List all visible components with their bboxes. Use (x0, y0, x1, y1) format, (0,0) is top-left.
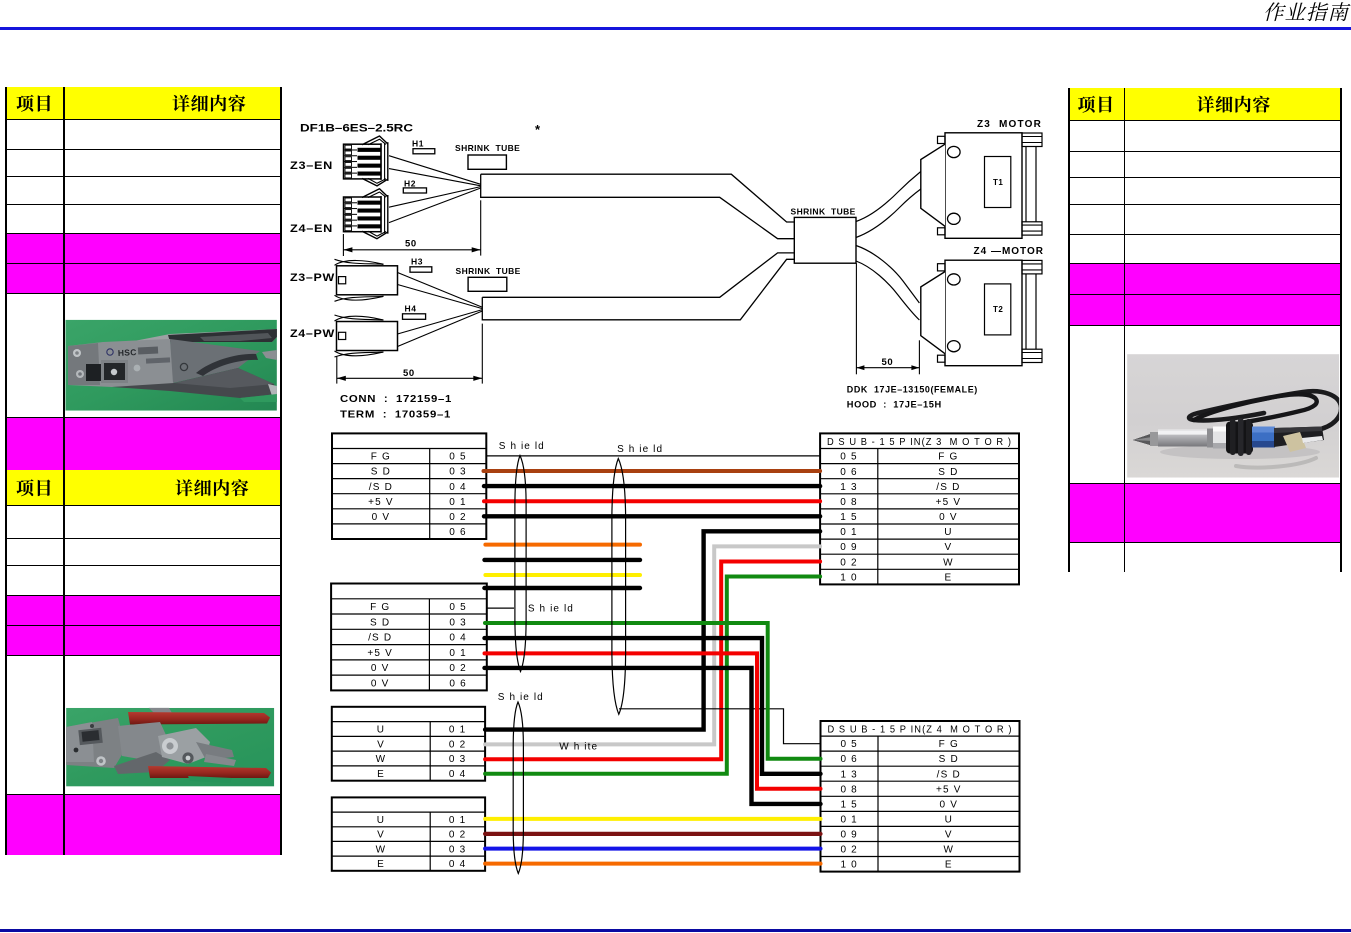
bottom blue rule (0, 929, 1351, 932)
svg-text:0 5: 0 5 (449, 602, 467, 613)
svg-text:*: * (535, 122, 541, 137)
short FG stub table2 (487, 607, 514, 609)
svg-text:/S D: /S D (937, 769, 961, 780)
svg-text:0 2: 0 2 (449, 663, 467, 674)
wire Z4-EN to cable (389, 187, 481, 208)
item table C (right) (1068, 88, 1342, 571)
svg-text:0 8: 0 8 (840, 497, 858, 508)
svg-text:F G: F G (371, 452, 391, 463)
svg-text:0 3: 0 3 (449, 467, 467, 478)
pin table 2 Z4-EN wires (331, 584, 487, 691)
wire V darkred table4 to Z4 pin09 (485, 832, 820, 836)
connector Z4-PW (337, 322, 398, 351)
svg-text:1 5: 1 5 (840, 799, 858, 810)
svg-text:W h ite: W h ite (559, 742, 598, 753)
wire V white table3 to Z3 pin09 (485, 546, 820, 744)
svg-text:+5 V: +5 V (368, 497, 394, 508)
svg-text:0 3: 0 3 (449, 844, 467, 855)
svg-text:0 2: 0 2 (449, 512, 467, 523)
svg-text:Z3 MOTOR: Z3 MOTOR (977, 119, 1042, 130)
svg-text:SHRINK TUBE: SHRINK TUBE (456, 266, 521, 276)
stub wire black 1 (485, 558, 641, 562)
svg-text:W: W (376, 754, 387, 765)
central shrink tube box (794, 217, 856, 263)
svg-text:0 1: 0 1 (449, 815, 467, 826)
svg-text:U: U (945, 815, 953, 826)
wire W red table3 to Z3 pin02 (485, 562, 820, 760)
svg-text:S D: S D (370, 617, 390, 628)
svg-text:0 6: 0 6 (449, 678, 467, 689)
wire SD brown table1 to Z3 pin06 (484, 469, 821, 473)
pin table 3 Z3-PW wires (332, 707, 485, 781)
cable 1 outline (481, 174, 795, 222)
header A 项目/详细内容 (17, 95, 34, 112)
svg-text:0 2: 0 2 (840, 845, 858, 856)
top blue rule (0, 27, 1351, 30)
svg-text:0 V: 0 V (371, 663, 390, 674)
cable 2 outline (482, 253, 794, 297)
connector Z3-EN (344, 144, 382, 179)
pin table 4 Z4-PW wires (332, 797, 485, 870)
svg-text:50: 50 (403, 368, 415, 379)
photo soldering iron (1127, 354, 1341, 478)
svg-text:0 V: 0 V (372, 512, 391, 523)
photo crimp tool 1 (66, 320, 278, 411)
wire shield2 to Z4 pin05 (thin) (619, 709, 821, 744)
svg-text:0 6: 0 6 (840, 754, 858, 765)
wire /SD black table2 to Z4 pin13 (485, 638, 821, 774)
svg-text:1 0: 1 0 (840, 572, 858, 583)
dimension 50 motor (855, 263, 857, 374)
pin table 1 Z3-EN wires (332, 433, 486, 539)
connector Z3 MOTOR (945, 133, 1022, 239)
svg-text:Z4 —MOTOR: Z4 —MOTOR (974, 246, 1044, 257)
svg-text:V: V (377, 830, 385, 841)
svg-text:1 0: 1 0 (840, 860, 858, 871)
shrink tube 2 (468, 277, 507, 291)
svg-text:H2: H2 (404, 178, 416, 188)
svg-text:SHRINK TUBE: SHRINK TUBE (791, 207, 856, 217)
svg-text:E: E (944, 572, 952, 583)
svg-text:S h ie ld: S h ie ld (499, 441, 545, 452)
wire Z3-EN to cable (389, 156, 481, 185)
photo crimp tool 2 (66, 703, 274, 786)
svg-text:W: W (943, 845, 954, 856)
svg-text:W: W (943, 557, 954, 568)
svg-text:0 2: 0 2 (840, 557, 858, 568)
wire 0V black table1 to Z3 pin15 (484, 514, 820, 518)
svg-text:Z3–PW: Z3–PW (290, 272, 335, 284)
stub wire black 2 (484, 586, 640, 590)
svg-text:HOOD : 17JE–15H: HOOD : 17JE–15H (847, 400, 942, 411)
wire E green table3 to Z3 pin10 (485, 577, 820, 774)
wire W blue table4 to Z4 pin02 (485, 847, 820, 851)
svg-text:V: V (945, 830, 953, 841)
svg-text:+5 V: +5 V (936, 497, 962, 508)
wire to Z4 motor b (856, 261, 919, 320)
svg-text:0 V: 0 V (939, 799, 958, 810)
svg-text:U: U (944, 527, 952, 538)
wire E orange table4 to Z4 pin10 (485, 862, 820, 866)
wire to Z3 motor b (856, 189, 921, 238)
svg-text:/S D: /S D (368, 633, 392, 644)
svg-text:D S U B - 1 5 P IN(Z 3 M O T: D S U B - 1 5 P IN(Z 3 M O T O R ) (827, 436, 1012, 448)
svg-text:S D: S D (939, 754, 959, 765)
svg-text:D S U B - 1 5 P IN(Z 4 M O T: D S U B - 1 5 P IN(Z 4 M O T O R ) (828, 723, 1013, 735)
svg-text:W: W (376, 844, 387, 855)
svg-text:E: E (377, 769, 385, 780)
svg-text:HSC: HSC (118, 347, 137, 358)
wire +5V red table2 to Z4 pin08 (485, 653, 821, 788)
svg-text:0 3: 0 3 (449, 754, 467, 765)
svg-text:F G: F G (938, 452, 958, 463)
svg-text:U: U (377, 725, 385, 736)
svg-text:0 5: 0 5 (840, 452, 858, 463)
svg-text:DF1B–6ES–2.5RC: DF1B–6ES–2.5RC (300, 123, 413, 135)
svg-text:/S D: /S D (936, 482, 960, 493)
svg-text:Z4–EN: Z4–EN (290, 223, 333, 235)
svg-text:T1: T1 (993, 178, 1003, 187)
svg-text:TERM : 170359–1: TERM : 170359–1 (340, 410, 451, 421)
svg-text:0 1: 0 1 (840, 815, 858, 826)
svg-text:H1: H1 (412, 139, 424, 149)
svg-text:0 8: 0 8 (840, 784, 858, 795)
dimension 50 PW (336, 357, 338, 384)
DSUB-15PIN Z3 MOTOR table (820, 433, 1019, 584)
svg-text:+5 V: +5 V (936, 784, 962, 795)
dimension 50 EN (342, 234, 344, 256)
header B 项目/详细内容 (17, 479, 34, 496)
svg-text:0 6: 0 6 (449, 527, 467, 538)
svg-text:0 4: 0 4 (449, 769, 467, 780)
item table A (top-left) (5, 87, 282, 470)
svg-text:0 6: 0 6 (840, 467, 858, 478)
wire +5V red table1 to Z3 pin08 (484, 499, 820, 503)
wire U black table3 to Z3 pin01 (485, 531, 820, 729)
connector Z3-PW (337, 266, 398, 295)
svg-text:E: E (945, 860, 953, 871)
wire Z4-PW to cable (398, 310, 483, 334)
shield ellipse 1 (515, 456, 526, 672)
stub wire orange (485, 543, 640, 547)
shield ellipse 3 (513, 702, 523, 874)
svg-text:0 4: 0 4 (449, 482, 467, 493)
svg-text:T2: T2 (993, 305, 1003, 314)
svg-text:0 9: 0 9 (840, 830, 858, 841)
svg-text:0 V: 0 V (939, 512, 958, 523)
wire /SD black table1 to Z3 pin13 (484, 484, 820, 488)
svg-text:0 5: 0 5 (840, 739, 858, 750)
svg-text:F G: F G (939, 739, 959, 750)
svg-text:Z3–EN: Z3–EN (290, 160, 333, 172)
svg-text:DDK 17JE–13150(FEMALE): DDK 17JE–13150(FEMALE) (847, 385, 978, 396)
wire SD green table2 to Z4 pin06 (485, 623, 821, 759)
svg-text:S h ie ld: S h ie ld (528, 604, 574, 615)
svg-text:S h ie ld: S h ie ld (498, 692, 544, 703)
connector Z4 MOTOR (945, 260, 1022, 366)
svg-text:SHRINK TUBE: SHRINK TUBE (455, 143, 520, 153)
svg-text:50: 50 (405, 239, 417, 250)
svg-text:/S D: /S D (369, 482, 393, 493)
DSUB-15PIN Z4 MOTOR table (821, 721, 1020, 872)
svg-text:0 2: 0 2 (449, 830, 467, 841)
svg-text:0 1: 0 1 (449, 497, 467, 508)
svg-text:V: V (944, 542, 952, 553)
svg-text:1 3: 1 3 (840, 482, 858, 493)
svg-text:F G: F G (370, 602, 390, 613)
wire to Z4 motor a (856, 246, 919, 304)
wire to Z3 motor a (856, 172, 921, 222)
header C 项目/详细内容 (1078, 96, 1095, 113)
svg-text:0 5: 0 5 (449, 452, 467, 463)
svg-text:+5 V: +5 V (367, 648, 393, 659)
svg-text:H3: H3 (411, 257, 423, 267)
stub wire yellow (485, 573, 640, 577)
svg-text:0 3: 0 3 (449, 617, 467, 628)
svg-text:U: U (377, 815, 385, 826)
wire U yellow table4 to Z4 pin01 (485, 817, 820, 821)
connector Z4-EN (344, 197, 382, 232)
svg-text:0 V: 0 V (371, 678, 390, 689)
svg-text:CONN : 172159–1: CONN : 172159–1 (340, 394, 452, 405)
wire FG table1 to Z3 pin05 (thin) (486, 455, 820, 457)
svg-text:0 1: 0 1 (449, 648, 467, 659)
svg-text:E: E (377, 859, 385, 870)
wire 0V black table2 to Z4 pin15 (485, 668, 821, 804)
svg-text:1 5: 1 5 (840, 512, 858, 523)
svg-text:S h ie ld: S h ie ld (617, 444, 663, 455)
shield ellipse 2 (612, 459, 626, 715)
svg-text:0 4: 0 4 (449, 633, 467, 644)
svg-text:1 3: 1 3 (840, 769, 858, 780)
svg-text:Z4–PW: Z4–PW (290, 328, 335, 340)
wire Z3-PW to cable (398, 273, 483, 308)
svg-text:0 2: 0 2 (449, 739, 467, 750)
shrink tube 1 (468, 155, 506, 169)
svg-text:50: 50 (882, 357, 894, 368)
svg-text:S D: S D (938, 467, 958, 478)
svg-text:0 1: 0 1 (449, 725, 467, 736)
svg-text:H4: H4 (405, 304, 417, 314)
svg-text:0 9: 0 9 (840, 542, 858, 553)
svg-text:0 4: 0 4 (449, 859, 467, 870)
svg-text:S D: S D (371, 467, 391, 478)
item table B (bottom-left) (5, 470, 282, 855)
svg-text:0 1: 0 1 (840, 527, 858, 538)
svg-text:V: V (377, 739, 385, 750)
title 作业指南 (1263, 2, 1287, 21)
